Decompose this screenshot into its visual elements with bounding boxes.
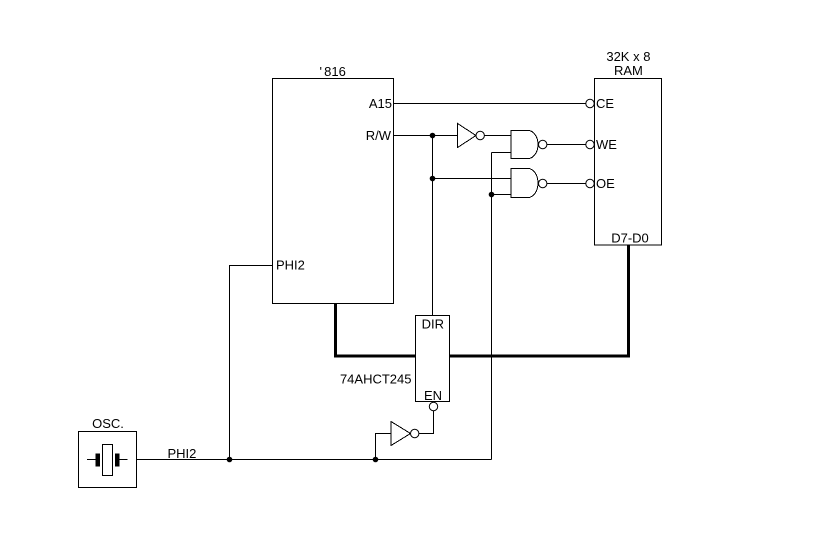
wire PHI2 from oscillator: [137, 459, 492, 461]
svg-text:DIR: DIR: [422, 317, 444, 332]
bubble OE active-low: [586, 179, 594, 187]
svg-text:OE: OE: [596, 176, 615, 191]
svg-text:CE: CE: [596, 96, 614, 111]
svg-text:PHI2: PHI2: [276, 258, 305, 273]
svg-text:WE: WE: [596, 137, 617, 152]
data bus CPU to 74AHCT245 (thick): [336, 304, 416, 357]
wire NAND1 out to WE: [547, 144, 586, 146]
svg-text:RAM: RAM: [614, 63, 643, 78]
svg-text:'816: '816: [320, 64, 346, 79]
CPU U1 '816 box: [273, 79, 394, 304]
svg-text:PHI2: PHI2: [168, 446, 197, 461]
oscillator X1 box: [79, 432, 137, 488]
junction dot PHI2 to CPU: [227, 457, 233, 463]
wire A15 to CE: [394, 103, 586, 105]
svg-text:EN: EN: [424, 388, 442, 403]
wire R/W vertical to DIR pin: [432, 136, 434, 316]
svg-text:74AHCT245: 74AHCT245: [340, 372, 412, 387]
bubble EN active-low: [429, 402, 437, 410]
wire inverter U6 out to EN: [419, 411, 434, 434]
svg-text:R/W: R/W: [366, 128, 392, 143]
wire NAND2 out to OE: [547, 183, 586, 185]
wire inverter U3 out to NAND1 input A: [484, 135, 511, 137]
NAND gate U4B (OE): [511, 169, 547, 198]
junction dot R/W node: [430, 133, 436, 139]
wire PHI2 to NAND2 input B: [492, 194, 512, 196]
junction dot PHI2 to inverter U6: [373, 457, 379, 463]
NAND gate U4A (WE): [511, 131, 547, 159]
svg-text:32K x 8: 32K x 8: [606, 49, 650, 64]
bubble CE active-low: [586, 99, 594, 107]
RAM U2 box: [595, 79, 662, 246]
wire PHI2 to inverter U6 input: [376, 434, 392, 460]
data bus 74AHCT245 to RAM D7-D0 (thick): [450, 245, 629, 356]
svg-text:D7-D0: D7-D0: [611, 231, 649, 246]
transceiver U5 74AHCT245 box: [416, 316, 450, 402]
wire PHI2 to NAND1 input B: [492, 152, 512, 154]
svg-text:OSC.: OSC.: [92, 416, 124, 431]
wire PHI2 vertical branch: [491, 153, 493, 460]
wire R/W to inverter input: [394, 135, 458, 137]
bubble WE active-low: [586, 140, 594, 148]
wire R/W to NAND2 input A: [433, 178, 512, 180]
svg-text:A15: A15: [369, 96, 392, 111]
inverter U3 (R/W inverted): [458, 124, 485, 148]
junction dot R/W to NAND2: [430, 176, 436, 182]
wire PHI2 up to CPU pin: [230, 266, 273, 460]
crystal Y1 symbol: [87, 445, 128, 476]
inverter U6 (EN driver): [391, 422, 419, 446]
junction dot PHI2 to NAND2: [489, 192, 495, 198]
